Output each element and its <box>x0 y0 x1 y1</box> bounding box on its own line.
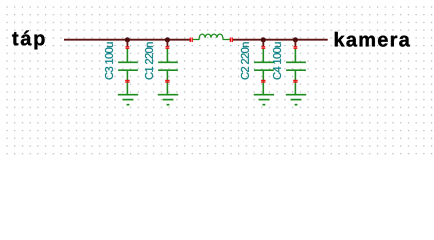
wire left segment (táp to inductor) <box>64 39 190 41</box>
C1 value label <box>145 42 153 79</box>
capacitor C4 <box>273 37 306 105</box>
ground symbol of C4: bar 1 <box>286 94 306 96</box>
junction dot at C1 <box>165 37 170 42</box>
C2 pin 1 end marker <box>261 46 265 49</box>
node táp label <box>12 31 44 50</box>
junction dot at C4 <box>293 37 298 42</box>
C2 value label <box>241 42 249 79</box>
C2 plate 1 <box>254 61 274 63</box>
capacitor C3 <box>105 37 138 105</box>
C3 plate 2 <box>118 69 138 71</box>
C2 pin 2 end marker <box>261 80 265 83</box>
C1 pin 1 end marker <box>166 46 170 49</box>
ground symbol of C2: bar 3 <box>263 104 266 106</box>
C4 bottom pin <box>294 70 296 95</box>
C1 pin 2 end marker <box>165 80 169 83</box>
wire stub to C4 <box>294 40 296 46</box>
junction dot at C2 <box>261 37 266 42</box>
C1 plate 1 <box>158 61 178 63</box>
ground symbol of C4: bar 2 <box>291 99 302 101</box>
C4 pin 2 end marker <box>293 80 297 83</box>
inductor L1 (coil) <box>192 34 231 39</box>
ground symbol of C2: bar 2 <box>259 99 270 101</box>
C4 value label <box>273 42 281 79</box>
C3 pin 1 end marker <box>126 46 130 49</box>
ground symbol of C3: bar 3 <box>127 104 130 106</box>
C2 top pin <box>262 48 264 62</box>
C1 top pin <box>166 48 168 62</box>
ground symbol of C2: bar 1 <box>254 94 274 96</box>
ground symbol of C1: bar 3 <box>167 104 170 106</box>
C1 plate 2 <box>158 69 178 71</box>
C4 top pin <box>294 48 296 62</box>
wire stub to C3 <box>126 40 128 46</box>
C3 bottom pin <box>126 70 128 95</box>
C1 bottom pin <box>166 70 168 95</box>
node kamera label <box>335 32 410 47</box>
C3 value label <box>105 42 113 79</box>
C4 plate 2 <box>286 69 306 71</box>
ground symbol of C3: bar 2 <box>123 99 134 101</box>
C3 top pin <box>126 48 128 62</box>
junction dot at C3 <box>125 37 130 42</box>
ground symbol of C4: bar 3 <box>295 104 298 106</box>
inductor pin end marker right <box>230 38 233 42</box>
ground symbol of C3: bar 1 <box>118 94 138 96</box>
ground symbol of C1: bar 2 <box>163 99 174 101</box>
wire right segment (inductor to kamera) <box>232 39 327 41</box>
C4 pin 1 end marker <box>294 46 298 49</box>
C4 plate 1 <box>286 61 306 63</box>
wire stub to C2 <box>262 40 264 46</box>
C2 bottom pin <box>262 70 264 95</box>
wire stub to C1 <box>166 40 168 46</box>
C2 plate 2 <box>254 69 274 71</box>
inductor pin end marker left <box>190 38 193 42</box>
C3 plate 1 <box>118 61 138 63</box>
capacitor C2 <box>241 37 274 105</box>
capacitor C1 <box>145 37 178 105</box>
ground symbol of C1: bar 1 <box>158 94 178 96</box>
C3 pin 2 end marker <box>125 80 129 83</box>
